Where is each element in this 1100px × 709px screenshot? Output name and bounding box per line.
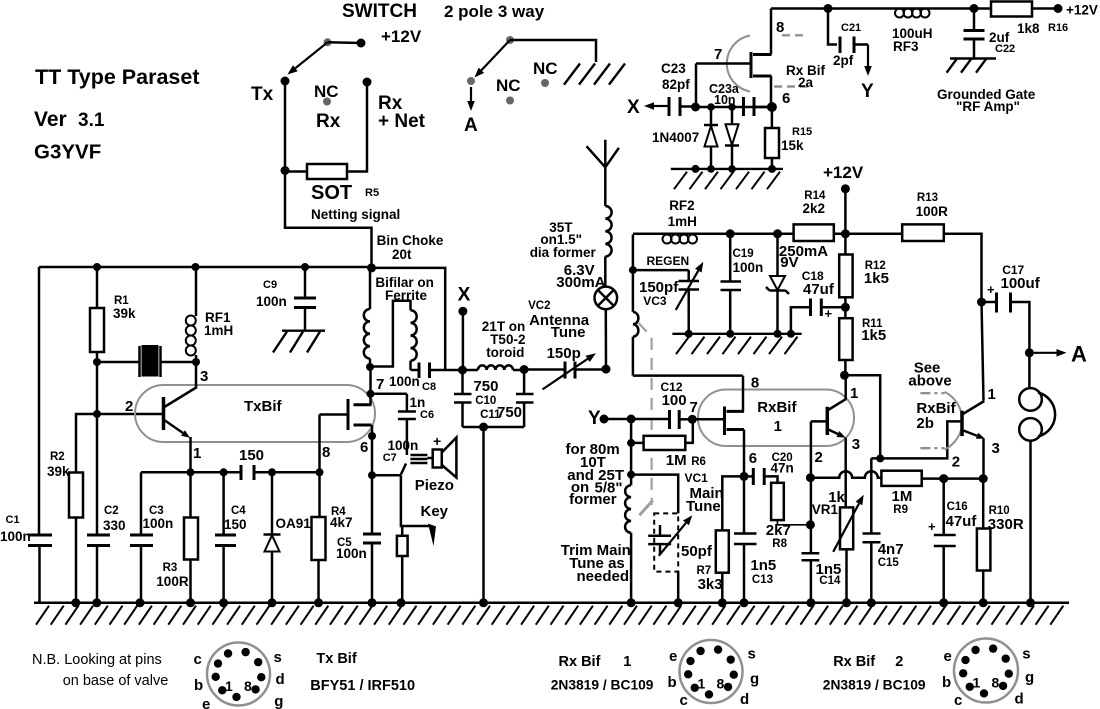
transistor RxBif2b BJT [960,411,964,436]
resistor R1 39k [96,267,99,308]
svg-text:750: 750 [473,378,498,395]
svg-text:Tune: Tune [551,324,586,341]
capacitor C9 100n [304,267,307,298]
svg-text:100n: 100n [0,529,31,544]
wire +12V top rail [771,7,1058,10]
svg-text:Rx Bif: Rx Bif [833,654,875,670]
resistor R3 100R [189,472,192,517]
svg-text:R3: R3 [163,562,178,574]
svg-text:REGEN: REGEN [647,254,690,268]
capacitor C4 150 [222,472,225,535]
wire pole1 pivot to +12V contact [328,41,362,44]
svg-text:3: 3 [852,436,860,453]
svg-text:2N3819 / BC109: 2N3819 / BC109 [551,678,654,693]
svg-text:39k: 39k [47,464,70,479]
svg-text:c: c [194,651,202,668]
svg-text:1: 1 [623,654,631,670]
wire base lead RxBif1 [811,420,827,423]
node +12V mid terminal [841,184,850,193]
svg-text:on base of valve: on base of valve [63,673,169,689]
switch pole 2 NC contact 2 [541,79,549,87]
node C10 C11 ground tap [479,423,488,432]
wire base of TxBif [77,413,164,416]
wire key drop [401,475,429,526]
wire X node to pin6 2a [696,106,770,109]
svg-text:2N3819 / BC109: 2N3819 / BC109 [823,678,926,693]
svg-text:Rx Bif: Rx Bif [559,654,601,670]
wire RF2 rail [633,233,794,236]
inductor receiver tank coil [632,270,635,312]
svg-text:b: b [194,677,203,694]
diode 1N4007 left [710,107,713,125]
inductor RF1 1mH [195,267,198,316]
svg-text:C15: C15 [878,557,900,569]
svg-text:+12V: +12V [381,27,422,46]
svg-text:+12V: +12V [1066,3,1098,18]
svg-text:R16: R16 [1048,22,1068,34]
svg-text:C10: C10 [475,395,496,407]
node C21 tap [824,4,833,13]
svg-text:8: 8 [992,675,1000,691]
wire SOT junction to bin choke node [285,171,372,268]
svg-text:1k8: 1k8 [1017,21,1040,36]
node pin6 C7 junction [368,471,376,479]
node pin6 2a junction [767,102,777,112]
capacitor C2 330 [96,414,99,535]
capacitor C16 47uf [942,479,945,535]
capacitor C11 750 [523,370,526,395]
capacitor C8 100n [411,369,418,372]
arrow to A terminal right [1034,352,1057,354]
diode 1N4007 right [731,107,734,124]
resistor R2 39k [76,414,77,473]
capacitor C3 100n [140,472,143,535]
node C15 base junction [876,454,884,462]
svg-text:C23: C23 [661,61,686,76]
tube envelope TxBif [135,385,375,442]
svg-text:4k7: 4k7 [330,515,353,530]
node RF1 bottom [192,358,200,366]
svg-text:+ Net: + Net [378,111,426,132]
svg-text:Y: Y [861,81,874,102]
node C22 tap [970,4,979,13]
node R1 top [93,263,101,271]
variable capacitor VC1 50pf dashed box [654,513,678,571]
svg-text:1k5: 1k5 [864,270,889,287]
svg-text:VC2: VC2 [528,300,550,312]
svg-text:8: 8 [322,444,330,461]
capacitor C14 1n5 [802,552,820,555]
svg-text:e: e [202,696,210,709]
svg-text:1: 1 [973,675,981,691]
node R9 C16 junction [939,474,948,483]
wire pole2 pivot to ground [510,40,596,62]
switch pole 1 NC contact [323,98,331,106]
svg-text:g: g [1025,669,1034,686]
wire Tx contact down [284,81,287,171]
svg-text:1n: 1n [410,395,426,410]
svg-text:R5: R5 [365,187,379,199]
inductor bifilar right winding [370,301,411,367]
node +12V terminal top right [1054,4,1063,13]
svg-text:100R: 100R [156,574,189,589]
svg-text:4n7: 4n7 [878,541,904,558]
svg-text:+12V: +12V [823,163,864,182]
node R4 pin8 tap [316,468,324,476]
tube envelope RxBif2b arc [945,392,963,450]
svg-text:2k7: 2k7 [766,522,791,539]
switch pole 2 wiper arrow [481,40,510,70]
node C19 tap [726,229,735,238]
transistor RxBif 2a FET [750,52,753,78]
svg-text:20t: 20t [392,247,412,262]
svg-text:150: 150 [224,517,247,532]
svg-text:1: 1 [988,386,996,403]
wire pin8 TxBif down [318,415,321,473]
svg-text:100n: 100n [389,374,420,389]
inductor 21T T50-2 toroid [478,365,513,370]
svg-text:2pf: 2pf [833,53,854,68]
svg-text:R15: R15 [792,126,812,138]
svg-text:C16: C16 [947,501,968,513]
svg-text:100n: 100n [388,438,419,453]
capacitor 150 series [240,465,243,480]
svg-text:330: 330 [103,518,126,533]
wire pin2 to C14 [810,478,813,553]
svg-text:above: above [908,373,951,390]
tube envelope RxBif1 [698,390,854,447]
svg-text:TxBif: TxBif [244,398,283,415]
svg-text:Tune: Tune [686,498,721,515]
svg-text:X: X [458,285,471,306]
capacitor C13 1n5 [743,476,746,533]
svg-text:1mH: 1mH [204,323,233,338]
svg-text:b: b [942,674,951,691]
svg-text:X: X [627,97,640,118]
svg-text:R9: R9 [893,504,908,516]
capacitor C23a [742,97,745,116]
resistor R10 330R [982,479,985,529]
svg-text:e: e [944,648,952,665]
variable capacitor VC3 150pf REGEN [687,270,690,281]
zener diode 9V 250mA [776,234,779,276]
svg-text:+: + [825,306,833,321]
svg-text:needed: needed [577,568,630,585]
node Y coil junction [627,415,636,424]
node R8 wiper junction [806,520,815,529]
capacitor C12 100 [668,410,671,429]
svg-text:former: former [569,491,617,508]
svg-text:39k: 39k [113,306,136,321]
svg-text:c: c [680,692,688,709]
svg-text:Y: Y [588,408,601,429]
svg-text:47n: 47n [771,461,794,476]
svg-text:g: g [750,671,759,688]
svg-text:BFY51 / IRF510: BFY51 / IRF510 [310,678,415,694]
wire R1 junction down to base rail [96,362,99,414]
switch pole 2 A contact [467,77,475,85]
resistor R7 3k3 [722,476,744,530]
node Y terminal [600,415,609,424]
svg-text:TT Type Paraset: TT Type Paraset [35,65,200,89]
wire REGEN feed [632,234,635,270]
svg-text:s: s [274,649,282,666]
wire C10 C11 bottom rail [463,426,525,429]
wire bifilar top right feed [372,268,446,370]
svg-text:1: 1 [850,385,858,402]
wire oscillator top rail [39,266,372,269]
svg-text:R2: R2 [50,451,65,463]
svg-text:s: s [748,646,756,663]
capacitor C17 100uf [982,301,997,304]
svg-text:330R: 330R [988,516,1024,533]
svg-text:2b: 2b [916,415,934,432]
svg-text:C22: C22 [995,43,1015,55]
ground switch pole 2 [564,64,580,85]
resistor R14 2k2 [794,224,834,241]
mechanical link dashed VC3 to VC1 [639,323,652,505]
svg-text:c: c [954,692,962,709]
svg-text:3: 3 [992,440,1000,457]
valve socket Tx Bif [207,643,270,706]
transistor RxBif1 FET [692,418,724,421]
inductor 25T receiver coil [630,475,633,486]
node pin7 RxBif1 [688,415,697,424]
svg-text:C14: C14 [819,575,841,587]
arrow X terminal [654,105,668,107]
capacitor C6 1n [406,394,409,412]
transistor TxBif FET [320,413,349,416]
antenna [604,140,607,206]
capacitor C10 750 [461,370,464,394]
switch pole 2 NC contact 1 [506,97,514,105]
svg-text:100: 100 [662,392,687,409]
transistor TxBif BJT [162,397,166,430]
node bin choke junction [367,263,376,272]
svg-text:dia former: dia former [530,245,597,260]
node bifilar bottom pin7 [366,363,374,371]
capacitor C15 4n7 [870,458,873,533]
wire emitter rail [141,471,241,474]
arrow to A terminal [470,87,472,101]
svg-text:A: A [1071,342,1087,367]
node pin2 junction [806,473,815,482]
resistor R12 1k5 [844,234,847,255]
svg-text:1: 1 [698,676,706,692]
svg-text:47uf: 47uf [946,513,978,530]
node R11 bottom junction [840,371,849,380]
svg-text:100uf: 100uf [1001,275,1041,292]
node C9 top [301,263,309,271]
svg-text:100n: 100n [336,546,367,561]
resistor R6 1M [630,419,633,443]
svg-text:Ver: Ver [34,108,67,131]
inductor bifilar left winding [369,268,372,309]
svg-text:8: 8 [717,676,725,692]
svg-text:NC: NC [533,59,558,78]
key jack contact [401,526,404,536]
svg-text:C9: C9 [263,279,277,291]
wire pin8 RxBif1 rail [633,374,743,377]
svg-text:3.1: 3.1 [78,110,105,131]
svg-text:6: 6 [749,450,757,467]
svg-text:Tx Bif: Tx Bif [316,651,356,667]
svg-text:b: b [668,674,677,691]
switch pole 1 pivot [324,38,332,46]
svg-text:2: 2 [895,654,903,670]
piezo sounder [427,457,432,460]
wire to pin2 RxBif2b [871,421,962,458]
svg-text:2: 2 [952,454,960,471]
capacitor C20 47n [744,475,753,478]
variable capacitor VC2 150p [524,368,565,371]
wire pin7 to C6 [371,393,407,396]
wire pin6 down [371,436,374,475]
svg-text:N.B. Looking at pins: N.B. Looking at pins [32,652,162,668]
svg-text:100n: 100n [733,260,764,275]
svg-text:3k3: 3k3 [698,576,723,593]
svg-text:C8: C8 [422,381,436,393]
node TxBif base junction [93,410,101,418]
resistor R15 15k [771,107,774,128]
svg-text:1M: 1M [666,452,687,469]
wire Y node to VC1 [630,443,633,475]
node toroid C11 junction [520,365,529,374]
node emitter R10 junction [979,474,988,483]
svg-text:OA91: OA91 [276,516,312,531]
wire to toroid [463,369,478,372]
svg-text:150: 150 [239,447,264,464]
wire pin7 2a down to X node [695,64,698,108]
svg-text:NC: NC [496,76,521,95]
node C18 R12 R11 junction [841,303,850,312]
svg-text:R6: R6 [691,456,706,468]
wire pin2 RxBif1 down [810,421,813,477]
svg-text:Netting signal: Netting signal [311,207,400,222]
svg-text:C2: C2 [104,505,119,517]
svg-text:50pf: 50pf [681,543,713,560]
node SOT left junction [281,166,290,175]
resistor R4 4k7 [318,472,321,517]
svg-text:SOT: SOT [311,182,352,204]
node X terminal [458,307,467,316]
svg-text:7: 7 [690,399,698,416]
svg-text:1: 1 [774,418,782,435]
svg-text:d: d [740,691,749,708]
svg-text:G3YVF: G3YVF [34,141,101,164]
svg-text:C4: C4 [231,505,246,517]
svg-text:2k2: 2k2 [803,201,826,216]
svg-text:d: d [276,671,285,688]
node pin6 TxBif [368,432,376,440]
svg-text:1mH: 1mH [668,214,697,229]
svg-text:RF3: RF3 [893,39,919,54]
node X coupling junction [691,103,700,112]
svg-text:R8: R8 [772,538,787,550]
ground receiver rail [672,333,801,335]
capacitor C5 100n [371,475,374,533]
svg-text:e: e [669,648,677,665]
svg-text:C6: C6 [420,409,434,421]
svg-text:7: 7 [714,46,722,63]
svg-text:+: + [433,433,441,449]
node X wire junction [458,366,467,375]
inductor 35T former [605,206,611,257]
resistor R13 100R [902,224,944,241]
svg-text:8: 8 [244,678,252,694]
capacitor C1 100n [28,534,52,537]
svg-text:1n5: 1n5 [750,557,776,574]
svg-text:Piezo: Piezo [415,477,454,494]
arrow to Y from C21 [867,45,869,67]
resistor R9 1M [881,471,921,486]
wire collector RxBif1 to R11 [844,375,847,399]
svg-text:VR1: VR1 [812,502,839,517]
node R14 R12 junction [841,229,850,238]
node R1 bottom crystal junction [93,358,101,366]
wire pin7 to bifilar [369,367,372,394]
svg-text:"RF Amp": "RF Amp" [956,99,1020,114]
capacitor C21 2pf [828,9,837,45]
svg-text:C19: C19 [733,248,754,260]
valve socket Rx Bif 1 [680,640,743,703]
svg-text:6: 6 [782,90,790,107]
wire hop pin2 to R9 [810,471,881,478]
svg-text:RxBif: RxBif [757,399,797,416]
switch pole 1 Rx+Net contact [363,78,372,87]
key blade [428,524,436,547]
switch pole 1 +12V contact [357,39,366,48]
svg-text:+: + [987,282,995,297]
svg-text:2 pole 3 way: 2 pole 3 way [444,2,545,21]
svg-text:d: d [1015,691,1024,708]
svg-text:+: + [928,519,936,534]
inductor RF2 1mH [663,235,672,244]
wire tank to ground [482,427,485,603]
svg-text:2: 2 [815,449,823,466]
node zener tap [773,229,782,238]
svg-text:Key: Key [421,503,449,520]
svg-text:Tx: Tx [251,84,274,105]
svg-text:VC1: VC1 [685,471,709,485]
svg-text:g: g [274,693,283,709]
svg-text:8: 8 [776,19,784,36]
node Tx contact [281,77,290,86]
switch pole 1 wiper arrow to Tx [295,42,327,68]
capacitor C23 [668,97,671,116]
capacitor C19 100n [729,234,732,282]
svg-text:Bin Choke: Bin Choke [377,233,444,248]
headphones [1028,353,1031,388]
switch pole 2 pivot [506,36,514,44]
resistor R8 2k7 [771,483,784,520]
svg-text:100R: 100R [916,204,949,219]
svg-text:RF2: RF2 [669,198,695,213]
wire Y to C12 [604,418,670,421]
node A output junction [1025,348,1034,357]
svg-text:47uf: 47uf [803,281,835,298]
ground C22 [950,57,996,59]
resistor R5 SOT [285,170,307,173]
svg-text:1: 1 [225,678,233,694]
node OA91 tap [268,468,276,476]
inductor RF3 100uH [895,9,904,18]
wire C17 node down to collector [982,302,984,401]
ground C9 [282,330,325,332]
svg-text:3: 3 [200,368,208,385]
svg-text:A: A [464,115,478,136]
wire C7 to pin6 junction [401,464,406,475]
